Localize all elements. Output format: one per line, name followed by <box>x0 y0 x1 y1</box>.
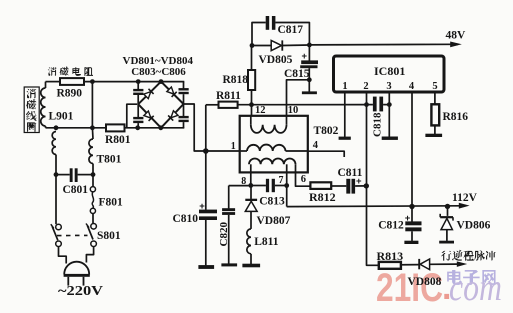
svg-text:+: + <box>199 201 205 212</box>
node C815 bottom junction <box>307 77 312 82</box>
label VD806 <box>457 219 491 231</box>
diode VD803 lower-left <box>144 111 154 121</box>
label 112V <box>452 192 478 204</box>
fuse F801 <box>90 187 95 224</box>
svg-text:5: 5 <box>432 81 437 92</box>
transformer T801 right winding <box>89 128 93 175</box>
label R816 <box>443 111 469 123</box>
wire pin8 row left <box>229 185 251 187</box>
node pin8 <box>248 183 253 188</box>
label C815 <box>284 68 310 80</box>
label degaussing coil boxed text <box>24 87 39 133</box>
wire bridge DC output <box>184 104 206 151</box>
svg-text:C811: C811 <box>338 167 363 179</box>
svg-text:4: 4 <box>409 81 415 92</box>
arrow flyback pulse <box>457 261 467 267</box>
T802 mid winding <box>241 145 308 151</box>
label pin 5 <box>432 81 437 92</box>
resistor R818 <box>248 46 255 116</box>
zener VD806 <box>440 206 453 241</box>
ground pin1 <box>339 137 351 140</box>
svg-text:VD808: VD808 <box>408 276 442 288</box>
label pin 1 <box>342 81 347 92</box>
wire pin4 T802 stub <box>308 151 344 157</box>
node VD805 cathode junction <box>307 43 312 48</box>
inductor L901 degauss coil <box>41 82 46 128</box>
op-amp IC801 box <box>334 56 445 92</box>
watermark 21IC.com logo <box>376 266 502 310</box>
label pin 6 <box>301 174 306 185</box>
wire mains top <box>46 81 185 83</box>
node main B+ junction <box>203 148 209 154</box>
label pin 4 <box>409 81 415 92</box>
wire R811 to IC pin2 node <box>238 104 367 106</box>
svg-text:C817: C817 <box>278 24 304 36</box>
label IC801 <box>374 64 405 78</box>
svg-text:48V: 48V <box>446 29 467 41</box>
node bridge top-left <box>136 79 141 84</box>
svg-text:VD806: VD806 <box>457 219 491 231</box>
capacitor C812 electrolytic <box>405 207 421 241</box>
label pin 4 T802 <box>313 140 319 151</box>
label pin 8 <box>241 176 246 187</box>
ground C820 <box>221 263 237 266</box>
ground C812 <box>404 241 418 244</box>
svg-text:L901: L901 <box>49 111 74 123</box>
label pin 2 <box>363 81 368 92</box>
T802 bottom winding <box>249 158 296 172</box>
wire IC pin2 lead <box>366 92 368 186</box>
node T801 right tap <box>90 125 95 130</box>
svg-text:T801: T801 <box>97 154 122 166</box>
label L901 <box>49 111 74 123</box>
label VD807 <box>257 215 291 227</box>
wire R811 left <box>206 104 219 106</box>
wire pin8 lead <box>250 172 252 185</box>
label L811 <box>254 236 279 248</box>
label pin 3 <box>386 81 391 92</box>
node bridge bottom-left <box>135 125 140 130</box>
label ~220V <box>58 284 103 299</box>
wire pin7 lead <box>286 172 288 185</box>
wire IC pin3 lead <box>388 92 390 137</box>
wire pin1 T802 <box>206 150 241 152</box>
svg-text:112V: 112V <box>452 192 478 204</box>
label S801 <box>97 230 121 242</box>
resistor R811 <box>219 102 238 108</box>
svg-text:R818: R818 <box>223 74 249 86</box>
node bridge top vertex <box>159 79 164 84</box>
svg-text:C810: C810 <box>173 213 199 225</box>
arrow 112V <box>459 203 470 209</box>
arrow 48V <box>450 42 462 48</box>
svg-text:T802: T802 <box>314 125 339 137</box>
wire IC pin1 lead <box>344 92 346 137</box>
node bridge bottom vertex <box>158 125 163 130</box>
svg-text:F801: F801 <box>99 196 124 208</box>
capacitor chain left C803/C805 <box>133 82 143 128</box>
diode VD802 upper-right <box>167 87 177 97</box>
svg-text:IC801: IC801 <box>374 64 405 78</box>
svg-text:VD807: VD807 <box>257 215 291 227</box>
label VD801~VD804 <box>123 55 194 67</box>
svg-text:R816: R816 <box>443 111 469 123</box>
label C818 rotated <box>372 112 384 137</box>
svg-text:R890: R890 <box>57 88 83 100</box>
label degaussing resistor text <box>48 66 94 76</box>
label T801 <box>97 154 122 166</box>
wire switch to plug right <box>86 247 93 263</box>
label T802 <box>314 125 339 137</box>
svg-text:R812: R812 <box>309 190 336 204</box>
node junction top-right of R890 <box>90 79 95 84</box>
label C820 rotated <box>218 222 230 247</box>
label pin 1 T802 <box>231 141 236 152</box>
svg-text:3: 3 <box>386 81 391 92</box>
resistor R812 <box>310 182 331 189</box>
node C801 left <box>54 172 59 177</box>
node T801 left tap <box>54 125 59 130</box>
node VD805 anode junction <box>250 43 255 48</box>
ground C810 <box>198 265 214 269</box>
svg-text:C813: C813 <box>259 195 285 207</box>
label VD808 <box>408 276 442 288</box>
svg-text:~220V: ~220V <box>58 284 103 299</box>
resistor R813 <box>379 262 401 269</box>
label F801 <box>99 196 124 208</box>
node pin3 C818 <box>387 102 392 107</box>
svg-text:C815: C815 <box>284 68 310 80</box>
svg-text:R801: R801 <box>105 134 131 146</box>
node C811 pin2 <box>364 183 369 188</box>
wire mains bottom <box>46 127 185 129</box>
ground L811 <box>242 264 260 268</box>
diode VD808 <box>401 259 457 270</box>
node R818 bottom junction <box>249 102 254 107</box>
label C811 <box>338 167 363 179</box>
wire IC pin5 lead <box>434 92 436 104</box>
ground C815 <box>302 91 317 94</box>
label VD805 <box>259 54 293 66</box>
wire IC pin4 lead <box>411 92 413 207</box>
node C801 right <box>91 172 96 177</box>
T802 primary winding top <box>251 116 287 133</box>
node C812 junction <box>409 204 414 209</box>
switch S801 left pole <box>51 224 62 246</box>
diode VD807 <box>245 186 257 229</box>
capacitor C820 <box>222 186 235 264</box>
wire 112V rail <box>287 205 459 208</box>
label C801 <box>63 184 89 196</box>
label C812 plus <box>405 213 411 224</box>
label pin 7 <box>279 175 284 186</box>
diode VD801 upper-left <box>143 89 153 99</box>
ground pin3 <box>382 137 398 140</box>
label C812 <box>378 220 404 232</box>
capacitor C801 <box>56 168 93 182</box>
node pin2 C818 <box>364 102 369 107</box>
wire pin6 lead <box>296 172 311 186</box>
svg-text:C812: C812 <box>378 220 404 232</box>
label R812 <box>309 190 336 204</box>
label R818 <box>223 74 249 86</box>
label flyback pulse text <box>441 250 496 261</box>
label C815 plus <box>302 51 308 62</box>
label C810 plus <box>199 201 205 212</box>
svg-text:VD805: VD805 <box>259 54 293 66</box>
wire C815 node to T802 pin10 <box>287 80 310 116</box>
svg-text:12: 12 <box>255 105 266 116</box>
svg-text:6: 6 <box>301 174 306 185</box>
label 48V <box>446 29 467 41</box>
resistor R816 <box>431 104 439 134</box>
label R813 <box>377 249 404 263</box>
capacitor C818 <box>367 97 390 112</box>
inductor L811 <box>247 229 251 264</box>
wire switch to plug left <box>59 247 67 264</box>
capacitor C811 <box>331 179 366 194</box>
switch S801 right pole <box>86 224 96 247</box>
svg-text:R811: R811 <box>216 90 241 102</box>
label R890 <box>57 88 83 100</box>
wire pin2 down to R813 row <box>367 186 379 265</box>
svg-text:2: 2 <box>363 81 368 92</box>
svg-text:10: 10 <box>288 105 299 116</box>
wire pin7 down to 112V rail <box>286 186 288 207</box>
diode VD804 lower-right <box>168 110 178 120</box>
wire node up to R811 <box>205 105 207 151</box>
svg-text:L811: L811 <box>254 236 279 248</box>
wire AC input L-bend <box>127 104 137 128</box>
label R811 <box>216 90 241 102</box>
svg-text:C803~C806: C803~C806 <box>131 66 186 78</box>
svg-text:S801: S801 <box>97 230 121 242</box>
wire R890 junction down <box>91 82 93 128</box>
resistor R801 <box>106 124 125 131</box>
label C811 plus <box>356 176 362 187</box>
svg-text:C801: C801 <box>63 184 89 196</box>
wire to switch left <box>55 175 57 225</box>
capacitor C810 electrolytic <box>199 151 217 265</box>
resistor R890 <box>60 78 84 85</box>
svg-text:com: com <box>449 267 502 309</box>
svg-text:4: 4 <box>313 140 319 151</box>
capacitor C817 top loop <box>252 16 309 46</box>
label C803~C806 <box>131 66 186 78</box>
label C817 <box>278 24 304 36</box>
node VD806 junction <box>445 204 450 209</box>
svg-text:+: + <box>405 213 411 224</box>
svg-text:+: + <box>302 51 308 62</box>
svg-text:C818: C818 <box>372 112 384 137</box>
svg-text:C820: C820 <box>218 222 230 247</box>
capacitor C813 <box>251 179 287 192</box>
switch gang dashed link <box>57 234 88 236</box>
svg-text:R813: R813 <box>377 249 404 263</box>
svg-text:7: 7 <box>279 175 284 186</box>
wire 48V rail <box>309 43 458 46</box>
diode VD805 <box>252 40 309 50</box>
svg-text:1: 1 <box>342 81 347 92</box>
label pin 10 <box>288 105 299 116</box>
label C810 <box>173 213 199 225</box>
wire to fuse <box>92 175 94 187</box>
ground VD806 <box>439 241 454 244</box>
label R801 <box>105 134 131 146</box>
transformer T802 box <box>240 116 308 173</box>
mains plug symbol <box>64 262 90 286</box>
node pin7 <box>284 183 289 188</box>
ground R816 <box>425 134 442 137</box>
capacitor C815 electrolytic <box>300 45 318 92</box>
transformer T801 left winding <box>52 132 56 175</box>
bridge diamond wires <box>138 82 183 128</box>
label pin 12 <box>255 105 266 116</box>
capacitor chain right C804/C806 <box>179 82 189 128</box>
label C813 <box>259 195 285 207</box>
